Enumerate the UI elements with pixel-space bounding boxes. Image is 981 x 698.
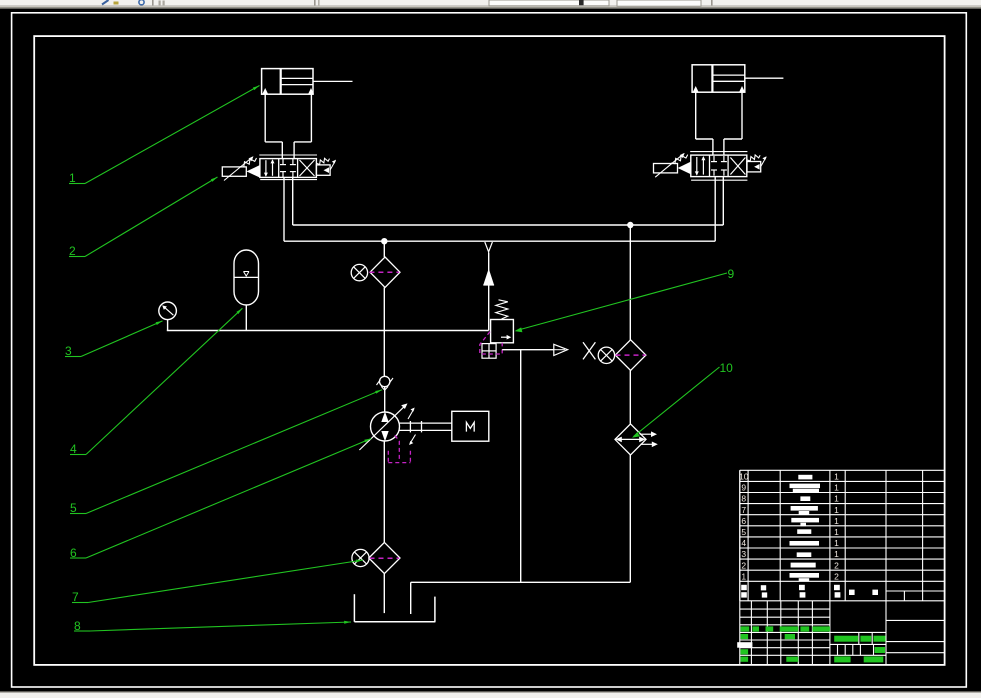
- wire right valve P port down: [714, 177, 716, 242]
- svg-text:2: 2: [69, 244, 76, 258]
- leader 6 (to pump): [70, 439, 371, 561]
- BOM header labels: [741, 585, 878, 598]
- wire right branch upper: [629, 225, 631, 340]
- svg-text:2: 2: [741, 560, 746, 570]
- accumulator 4: [234, 250, 259, 331]
- wire left valve T port to return manifold: [292, 177, 294, 225]
- svg-text:1: 1: [741, 571, 746, 581]
- leader 3 (to gauge): [65, 321, 163, 358]
- junction node upper manifold: [627, 222, 633, 228]
- bottom status strip: [0, 691, 981, 698]
- wire filter2 to check valve: [629, 370, 631, 424]
- svg-text:4: 4: [741, 538, 746, 548]
- title block grid: [740, 470, 945, 665]
- svg-text:6: 6: [741, 516, 746, 526]
- leader 8 (to tank): [74, 619, 351, 633]
- svg-text:5: 5: [741, 527, 746, 537]
- svg-text:1: 1: [69, 171, 76, 185]
- relief valve 9 (pilot operated relief valve): [480, 242, 568, 358]
- svg-text:9: 9: [728, 267, 735, 281]
- wire right valve T port down: [722, 177, 724, 225]
- filter 7 (suction filter w/ clogging indicator): [352, 542, 400, 573]
- leader 7 (to suction filter): [72, 560, 363, 604]
- wire filter to tank: [383, 574, 385, 614]
- check valve 10 (right branch): [615, 424, 658, 455]
- tank 8 (reservoir): [354, 594, 435, 622]
- wire right branch to tank: [411, 455, 631, 614]
- BOM table grid: [740, 470, 945, 665]
- svg-text:9: 9: [741, 483, 746, 493]
- svg-text:1: 1: [834, 505, 839, 515]
- svg-text:2: 2: [834, 571, 839, 581]
- svg-text:10: 10: [739, 472, 749, 482]
- node X mark: [583, 342, 595, 359]
- wire gauge manifold line: [167, 330, 489, 332]
- svg-text:1: 1: [834, 549, 839, 559]
- svg-text:2: 2: [834, 560, 839, 570]
- title block white name blob: [737, 642, 752, 648]
- wire upper manifold (tank return line): [293, 224, 724, 226]
- BOM part-name text blobs: [790, 475, 821, 582]
- wire left cylinder port B down: [294, 94, 311, 158]
- leader 1 (to left cylinder): [69, 86, 260, 186]
- svg-text:1: 1: [834, 494, 839, 504]
- svg-text:1: 1: [834, 483, 839, 493]
- top toolbar strip: [0, 0, 981, 9]
- gauge 3 (pressure gauge): [159, 302, 177, 331]
- wire left cylinder port A down: [265, 94, 282, 158]
- leader 4 (to accumulator): [70, 308, 242, 456]
- wire relief drain to tank return: [520, 350, 522, 583]
- svg-text:1: 1: [834, 472, 839, 482]
- svg-text:3: 3: [741, 549, 746, 559]
- cylinder right (second hydraulic cylinder): [692, 65, 783, 92]
- svg-text:1: 1: [834, 516, 839, 526]
- filter upper (pressure filter w/ clogging indicator): [351, 241, 400, 330]
- svg-text:5: 5: [70, 501, 77, 515]
- valve 2 (left 4/3 directional control valve): [222, 155, 336, 181]
- svg-text:4: 4: [70, 442, 77, 456]
- svg-text:7: 7: [741, 505, 746, 515]
- title block green text blobs: [741, 626, 886, 662]
- wire right cylinder port A down: [696, 92, 713, 155]
- wire pump suction line: [383, 441, 385, 543]
- cylinder 1 (left hydraulic cylinder): [262, 69, 353, 95]
- svg-text:10: 10: [720, 361, 734, 375]
- valve right (right 4/3 directional control valve): [654, 152, 767, 181]
- wire left valve P port to pressure manifold: [283, 177, 285, 241]
- leader 5 (to check node): [70, 390, 382, 515]
- svg-text:7: 7: [72, 590, 79, 604]
- wire right cylinder port B down: [724, 92, 742, 155]
- pump 6 (variable displacement pump + electric motor M): [359, 387, 488, 450]
- svg-text:3: 3: [65, 344, 72, 358]
- svg-text:1: 1: [834, 527, 839, 537]
- svg-text:1: 1: [834, 538, 839, 548]
- leader 9 (to relief valve): [515, 267, 735, 332]
- BOM row numbers and quantities: [739, 472, 839, 582]
- svg-text:8: 8: [741, 494, 746, 504]
- filter right branch (return filter w/ clogging indicator): [598, 340, 646, 371]
- leader 10 (to check valve): [632, 361, 733, 438]
- pilot drain lines (magenta) below pump: [388, 435, 410, 462]
- wire lower manifold (pressure line): [284, 240, 715, 242]
- check valve node 5 (above pump): [377, 331, 394, 391]
- leader 2 (to left valve): [69, 177, 218, 258]
- junction node lower manifold: [381, 238, 387, 244]
